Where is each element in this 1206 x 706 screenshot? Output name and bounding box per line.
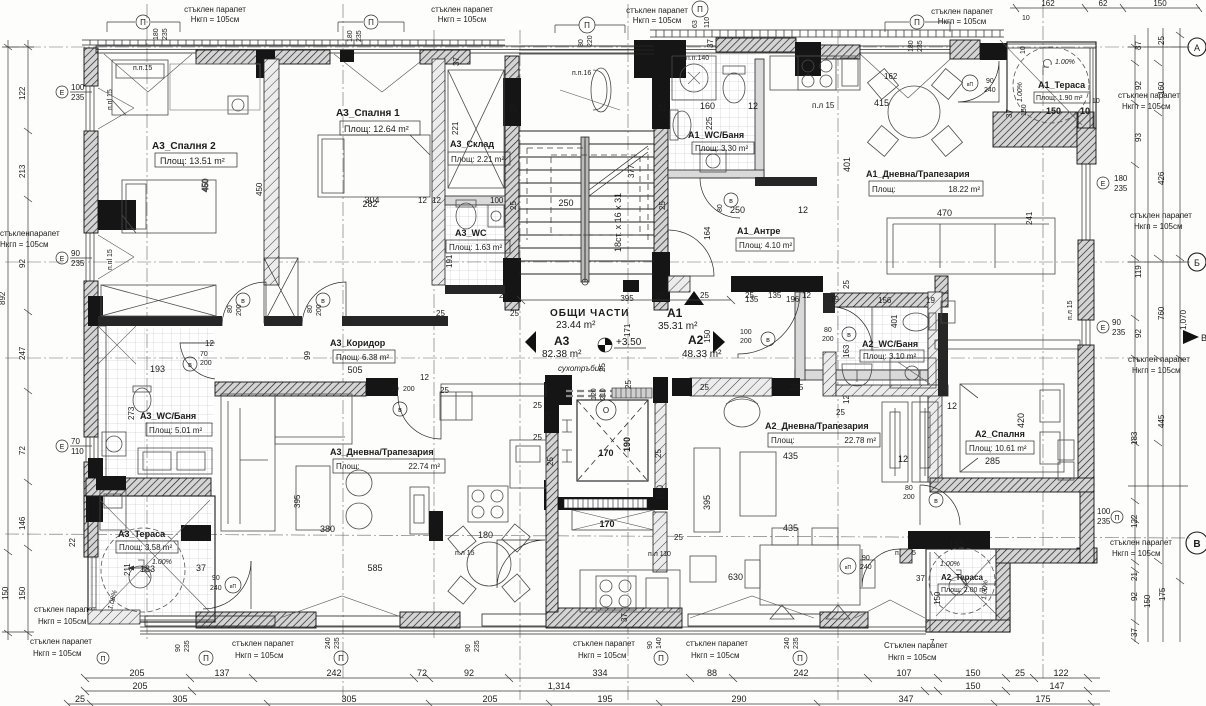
- svg-text:120: 120: [591, 388, 598, 400]
- svg-text:240: 240: [210, 585, 222, 592]
- svg-text:37: 37: [1005, 109, 1014, 118]
- corridor top wall seg2: [264, 316, 302, 326]
- svg-text:12: 12: [420, 373, 429, 382]
- svg-text:вП: вП: [967, 82, 974, 88]
- svg-text:175: 175: [1035, 694, 1050, 704]
- A2 dining table: [745, 528, 875, 619]
- left dimension strip: [0, 40, 152, 640]
- svg-text:146: 146: [18, 516, 27, 530]
- svg-text:22.78 m²: 22.78 m²: [844, 436, 876, 445]
- svg-text:+3.50: +3.50: [616, 337, 642, 348]
- svg-text:415: 415: [874, 98, 889, 108]
- corridor door arc 2: [302, 282, 346, 326]
- svg-text:п.л 15: п.л 15: [812, 101, 835, 110]
- wall antre A1 bottom black: [731, 276, 823, 292]
- svg-text:25: 25: [533, 433, 542, 442]
- svg-text:1,314: 1,314: [548, 681, 571, 691]
- right window 2: [1082, 320, 1090, 345]
- svg-text:в: в: [188, 362, 192, 369]
- stair dashed inner: [527, 148, 648, 240]
- wc A3 toilet: [456, 203, 476, 229]
- svg-text:240: 240: [860, 564, 872, 571]
- wall bedroom2|bedroom1: [264, 59, 279, 285]
- bottom window sill 4: [688, 614, 820, 626]
- svg-text:395: 395: [620, 294, 634, 303]
- svg-text:Площ: 2.00 m²: Площ: 2.00 m²: [941, 587, 988, 594]
- A2 sofa vert: [694, 448, 720, 532]
- wall A2 wc left: [795, 292, 805, 380]
- misc center dims: [436, 291, 845, 466]
- svg-text:12: 12: [842, 395, 851, 404]
- svg-text:435: 435: [783, 451, 798, 461]
- svg-text:П: П: [697, 5, 703, 14]
- level mark: [598, 338, 612, 352]
- svg-text:92: 92: [1134, 329, 1143, 338]
- wall left of WCbath: [98, 326, 106, 478]
- svg-text:137: 137: [214, 668, 229, 678]
- corridor bottom wall black end: [366, 378, 398, 396]
- svg-text:Е: Е: [60, 90, 65, 97]
- svg-text:200: 200: [316, 304, 323, 316]
- svg-text:445: 445: [1157, 414, 1166, 428]
- svg-text:72: 72: [417, 668, 427, 678]
- svg-text:585: 585: [367, 563, 382, 573]
- window mark P2: [364, 15, 378, 29]
- wall wc A1 right: [755, 59, 764, 178]
- wc A3 sink: [488, 205, 504, 227]
- svg-text:235: 235: [474, 640, 481, 652]
- svg-text:135: 135: [745, 295, 759, 304]
- dining table A3: [448, 524, 530, 604]
- svg-text:99: 99: [303, 351, 312, 360]
- A2 terrace door arc: [862, 549, 900, 587]
- svg-text:А2: А2: [688, 333, 704, 347]
- svg-text:37: 37: [452, 57, 461, 66]
- svg-text:200: 200: [200, 360, 212, 367]
- svg-text:12: 12: [432, 196, 441, 205]
- wall antre step: [668, 276, 690, 292]
- svg-text:п.л 15: п.л 15: [1067, 300, 1074, 320]
- svg-text:401: 401: [890, 314, 899, 328]
- wall wc A3 bottom: [445, 285, 505, 294]
- bottom exterior wall hatch 2: [400, 612, 460, 628]
- bottom dimension strip: [30, 637, 1110, 706]
- right wall seg2: [1078, 240, 1094, 320]
- wall wc A1 bottom: [668, 170, 764, 178]
- left window swings: [98, 88, 134, 279]
- desk A3 sp2: [170, 64, 260, 110]
- svg-text:183: 183: [1130, 431, 1139, 445]
- svg-text:Нкгп = 105см: Нкгп = 105см: [38, 617, 87, 626]
- top wall hatch seg A: [196, 50, 330, 64]
- svg-text:А3_Спалня 2: А3_Спалня 2: [152, 141, 216, 152]
- section triangle: [1183, 330, 1199, 344]
- grid bubble A: [1188, 38, 1206, 56]
- svg-text:630: 630: [728, 572, 743, 582]
- svg-text:25: 25: [598, 363, 607, 372]
- svg-text:10: 10: [1020, 46, 1027, 54]
- svg-text:Б: Б: [1194, 258, 1200, 268]
- svg-text:А3_Спалня 1: А3_Спалня 1: [336, 108, 400, 119]
- terrace A2 right wall: [996, 549, 1010, 632]
- window swing diagonals bedroom2: [104, 54, 430, 92]
- svg-text:Площ:: Площ:: [872, 185, 896, 194]
- A2 wc toilet: [903, 313, 929, 331]
- bottom exterior wall hatch 4: [820, 612, 868, 628]
- svg-text:242: 242: [793, 668, 808, 678]
- svg-text:19: 19: [830, 295, 839, 304]
- A2 fridge: [690, 556, 716, 582]
- obshti wall black block: [672, 378, 692, 396]
- terrace A3 outline: [88, 496, 215, 622]
- right dimension strip: [1097, 28, 1206, 644]
- svg-text:180: 180: [153, 28, 160, 40]
- tiled floor A3 WC: [446, 205, 504, 285]
- A1 wc sink: [673, 111, 691, 139]
- svg-text:Нкгп = 105см: Нкгп = 105см: [1112, 549, 1161, 558]
- duct X bedroom wall: [264, 258, 298, 323]
- A1 kitchen counter: [770, 56, 860, 90]
- svg-text:25: 25: [436, 309, 445, 318]
- elevator X cross: [577, 400, 648, 481]
- room label A3 bedroom2: [152, 141, 380, 205]
- svg-text:82.38 m²: 82.38 m²: [542, 349, 582, 360]
- stair top window: [519, 46, 654, 54]
- svg-text:П: П: [797, 654, 803, 663]
- svg-text:стъклен парапет: стъклен парапет: [573, 639, 635, 648]
- svg-text:80: 80: [824, 327, 832, 334]
- svg-text:401: 401: [842, 157, 852, 172]
- svg-text:Е: Е: [60, 256, 65, 263]
- svg-text:155: 155: [949, 539, 964, 549]
- svg-text:213: 213: [18, 164, 27, 178]
- svg-text:стъклен парапет: стъклен парапет: [232, 639, 294, 648]
- svg-text:А3_WC/Баня: А3_WC/Баня: [140, 411, 196, 421]
- svg-text:стъклен парапет: стъклен парапет: [1118, 91, 1180, 100]
- svg-text:25: 25: [509, 201, 518, 210]
- terrace A2 wheelchair symbol: [949, 570, 968, 595]
- svg-text:90: 90: [862, 555, 870, 562]
- svg-text:П: П: [338, 654, 344, 663]
- elevator bottom black: [544, 497, 667, 510]
- svg-text:А2_Дневна/Трапезария: А2_Дневна/Трапезария: [765, 421, 869, 431]
- svg-text:170: 170: [599, 519, 614, 529]
- window mark P3: [579, 17, 595, 33]
- svg-text:в: в: [241, 298, 245, 305]
- grid vertical 2b: [433, 30, 435, 640]
- svg-text:90: 90: [175, 644, 182, 652]
- left window 2: [86, 233, 94, 281]
- svg-text:156: 156: [878, 296, 892, 305]
- grid vertical 3: [519, 30, 521, 700]
- svg-text:25: 25: [533, 401, 542, 410]
- svg-text:235: 235: [71, 93, 85, 102]
- svg-text:72: 72: [18, 446, 27, 455]
- svg-text:200: 200: [403, 386, 415, 393]
- sklad X: [448, 70, 504, 188]
- right wall seg3: [1078, 345, 1094, 488]
- bottom P mark 3: [793, 651, 807, 665]
- svg-text:в: в: [729, 198, 733, 205]
- A2 wc bottom wall: [836, 385, 948, 396]
- bottom P mark 2: [654, 651, 668, 665]
- terrace A1 outline: [1007, 42, 1096, 129]
- svg-text:150: 150: [1021, 104, 1028, 116]
- stair left wall black top: [503, 78, 521, 126]
- svg-text:150: 150: [1153, 0, 1167, 8]
- grid horizontal A: [5, 46, 1190, 48]
- svg-text:37: 37: [1134, 41, 1143, 50]
- svg-text:110: 110: [71, 447, 84, 456]
- terrace A1 diagonal: [1000, 40, 1082, 125]
- kitchen wall center vertical: [546, 396, 558, 612]
- svg-text:П: П: [584, 21, 590, 30]
- bottom exterior wall hatch 1: [196, 612, 316, 628]
- svg-text:Нкгп = 105см: Нкгп = 105см: [191, 15, 240, 24]
- svg-text:П: П: [658, 654, 664, 663]
- grid horizontal V: [5, 534, 1190, 538]
- terrace A3 diagonal slope lines: [100, 500, 210, 612]
- svg-text:25: 25: [543, 411, 552, 420]
- svg-text:А1_WC/Баня: А1_WC/Баня: [688, 130, 744, 140]
- svg-text:200: 200: [822, 336, 834, 343]
- svg-text:135: 135: [768, 291, 782, 300]
- terrace A1 parapet top: [1007, 44, 1096, 128]
- living door arc: [398, 396, 441, 439]
- svg-text:235: 235: [334, 637, 341, 649]
- room label A3 wc: [418, 196, 510, 268]
- grid horizontal section: [5, 357, 1190, 359]
- svg-text:вП: вП: [230, 584, 237, 590]
- elevator left wall: [546, 400, 557, 497]
- bottom swing V3: [855, 600, 925, 618]
- svg-text:470: 470: [937, 208, 952, 218]
- wall bedroom1|stair col: [432, 59, 445, 285]
- terrace A3 hatch bottom corner: [88, 610, 140, 624]
- svg-text:305: 305: [172, 694, 187, 704]
- left window 1: [86, 86, 94, 131]
- svg-text:25: 25: [700, 291, 709, 300]
- door mark v2: [316, 293, 330, 307]
- top right dims: [1010, 7, 1200, 9]
- window mark P1: [136, 15, 150, 29]
- terrace A3 arrow: [128, 567, 148, 569]
- svg-text:Площ: 13.51 m²: Площ: 13.51 m²: [160, 156, 225, 166]
- svg-text:70: 70: [71, 437, 80, 446]
- svg-text:150: 150: [1, 586, 10, 600]
- svg-text:Площ: 2.21 m²: Площ: 2.21 m²: [451, 155, 504, 164]
- svg-text:25: 25: [654, 449, 663, 458]
- right exterior wall: [1078, 112, 1094, 160]
- svg-text:180: 180: [1114, 174, 1128, 183]
- elevator right black top: [653, 377, 668, 403]
- terrace A1 tap symbol: [1043, 59, 1051, 75]
- side A3 sp1: [587, 0, 589, 1]
- svg-text:290: 290: [731, 694, 746, 704]
- svg-text:225: 225: [790, 383, 804, 392]
- svg-text:100: 100: [740, 329, 752, 336]
- top black pier 3: [795, 42, 821, 76]
- svg-text:282: 282: [362, 199, 377, 209]
- elevator left black top: [545, 375, 572, 405]
- svg-text:80: 80: [307, 305, 314, 313]
- window swing diagonals A1 kitchen: [858, 52, 958, 98]
- svg-text:18.22 m²: 18.22 m²: [948, 185, 980, 194]
- kitchen wall black top: [544, 382, 559, 433]
- svg-text:П: П: [1114, 515, 1119, 522]
- bottom window sill 2: [316, 616, 400, 626]
- A1 sink k: [842, 58, 858, 86]
- svg-text:стъклен парапет: стъклен парапет: [1128, 355, 1190, 364]
- svg-text:150: 150: [18, 586, 27, 600]
- svg-text:247: 247: [18, 346, 27, 360]
- A2 kitchen sink: [646, 578, 668, 608]
- top wall hatch seg B: [420, 50, 470, 64]
- A1 entry door arc: [668, 230, 714, 276]
- svg-text:170: 170: [598, 448, 613, 458]
- A2 armchair: [724, 397, 760, 427]
- bed A3 sp2 bottom: [122, 180, 216, 233]
- terrace A1 step wall: [1077, 128, 1096, 164]
- svg-text:450: 450: [255, 182, 264, 196]
- tiled floor A1 WC bath: [670, 54, 756, 170]
- svg-text:37: 37: [620, 613, 629, 622]
- A1 sofa: [887, 218, 1055, 274]
- grid bubble B: [1188, 253, 1206, 271]
- svg-text:в: в: [321, 298, 325, 305]
- terrace A1 black pier: [980, 43, 1007, 60]
- svg-text:90: 90: [71, 249, 80, 258]
- svg-text:107: 107: [896, 668, 911, 678]
- svg-text:п.пl 15: п.пl 15: [107, 89, 114, 110]
- svg-text:12: 12: [802, 291, 811, 300]
- svg-text:395: 395: [702, 495, 712, 510]
- terrace A3 black pier: [86, 496, 103, 522]
- wardrobe A3 crossed: [101, 285, 216, 316]
- svg-text:стъклен парапет: стъклен парапет: [1110, 538, 1172, 547]
- svg-text:505: 505: [347, 365, 362, 375]
- svg-text:193: 193: [150, 364, 165, 374]
- stair left wall: [505, 56, 519, 310]
- top wall hatch seg D: [816, 45, 860, 59]
- wire: left wall seg2: [84, 131, 98, 233]
- svg-text:А3: А3: [554, 334, 570, 348]
- left window E3: [56, 440, 68, 452]
- stair bottom circle: [582, 279, 588, 285]
- svg-text:А2_Тераса: А2_Тераса: [941, 573, 983, 582]
- bed A3 sp1: [318, 135, 430, 197]
- svg-text:92: 92: [464, 668, 474, 678]
- A2 coffee table: [740, 452, 776, 516]
- svg-text:А3_WC: А3_WC: [455, 228, 487, 238]
- svg-text:90: 90: [465, 644, 472, 652]
- bottom P mark 1: [199, 651, 213, 665]
- obshti right wall black: [623, 280, 639, 292]
- svg-text:180: 180: [478, 530, 493, 540]
- svg-text:стъклен парапет: стъклен парапет: [431, 5, 493, 14]
- left wall black pier 2: [88, 296, 103, 326]
- svg-text:Нкгп = 105см: Нкгп = 105см: [438, 15, 487, 24]
- svg-text:22: 22: [68, 538, 77, 547]
- svg-text:стъкленпарапет: стъкленпарапет: [0, 229, 60, 238]
- svg-text:Стъклен парапет: Стъклен парапет: [884, 641, 948, 650]
- svg-text:241: 241: [1025, 211, 1034, 225]
- svg-text:119: 119: [1134, 265, 1143, 278]
- tiled floor A2 terrace: [930, 551, 996, 621]
- svg-text:347: 347: [898, 694, 913, 704]
- terrace A2 left jamb: [900, 549, 912, 563]
- svg-text:305: 305: [341, 694, 356, 704]
- elevator lower X small: [572, 510, 654, 530]
- svg-text:37: 37: [1130, 628, 1139, 637]
- svg-text:25: 25: [510, 309, 519, 318]
- svg-text:ОБЩИ ЧАСТИ: ОБЩИ ЧАСТИ: [550, 308, 629, 319]
- svg-text:90: 90: [1112, 318, 1121, 327]
- terrace A2 glazing: [926, 552, 930, 632]
- svg-text:205: 205: [132, 681, 147, 691]
- svg-text:196: 196: [786, 295, 800, 304]
- svg-text:190: 190: [622, 437, 632, 452]
- left wall black pier 1: [98, 200, 136, 230]
- svg-text:Площ: 12.64 m²: Площ: 12.64 m²: [344, 124, 409, 134]
- svg-text:426: 426: [1157, 171, 1166, 185]
- svg-text:Площ: 3.58 m²: Площ: 3.58 m²: [119, 543, 172, 552]
- svg-text:п.п.15: п.п.15: [133, 65, 152, 72]
- right window E2: [1097, 321, 1109, 333]
- svg-text:Площ:: Площ:: [336, 462, 360, 471]
- elevator sill hatch: [612, 388, 652, 398]
- left window E1: [56, 86, 68, 98]
- svg-text:110: 110: [704, 17, 711, 28]
- svg-text:122: 122: [1130, 514, 1139, 528]
- svg-text:Площ: 1.90 m²: Площ: 1.90 m²: [1036, 95, 1083, 102]
- svg-text:235: 235: [793, 637, 800, 649]
- svg-text:150: 150: [965, 681, 980, 691]
- A2 bedroom door arc: [920, 485, 960, 525]
- bed A3 sp2 top: [112, 60, 168, 115]
- top glazing line: [96, 49, 1004, 51]
- svg-text:стъклен парапет: стъклен парапет: [1130, 211, 1192, 220]
- svg-text:А1_Антре: А1_Антре: [737, 226, 780, 236]
- svg-text:162: 162: [884, 72, 898, 81]
- door mark v3: [183, 357, 197, 371]
- A2 wc door arc: [836, 307, 872, 349]
- A1 dining table: [868, 69, 963, 157]
- parapet tick band top: [650, 30, 1004, 37]
- grid vertical 4: [627, 4, 629, 700]
- svg-text:80: 80: [905, 485, 913, 492]
- left dim chain outer: [7, 40, 9, 640]
- kitchen island: [410, 487, 429, 534]
- svg-text:88: 88: [707, 668, 717, 678]
- svg-text:в: в: [934, 498, 938, 505]
- svg-text:стъклен парапет: стъклен парапет: [931, 7, 993, 16]
- stair treads: [519, 131, 654, 274]
- door mark v1: [236, 293, 250, 307]
- svg-text:205: 205: [129, 668, 144, 678]
- terrace A3 railing: [88, 557, 215, 620]
- stair center rail: [581, 137, 589, 282]
- svg-text:Нкгп = 105см: Нкгп = 105см: [1132, 366, 1181, 375]
- wall A2 right of antre: [935, 340, 1080, 349]
- svg-text:21: 21: [1130, 572, 1139, 581]
- svg-text:Нкгп = 105см: Нкгп = 105см: [33, 649, 82, 658]
- svg-text:150: 150: [703, 329, 712, 343]
- svg-text:80: 80: [717, 204, 724, 212]
- svg-text:191: 191: [445, 254, 454, 268]
- left window 3: [86, 437, 94, 462]
- grid vertical 6: [1042, 4, 1044, 680]
